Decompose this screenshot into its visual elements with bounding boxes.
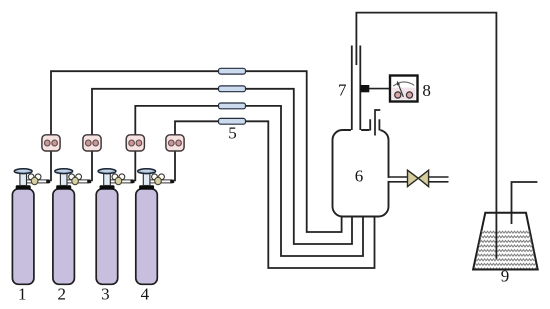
svg-text:1: 1 (18, 285, 27, 304)
svg-text:6: 6 (355, 167, 364, 186)
svg-text:3: 3 (101, 285, 110, 304)
svg-text:8: 8 (422, 81, 431, 100)
svg-text:2: 2 (58, 285, 67, 304)
svg-text:7: 7 (338, 81, 347, 100)
svg-text:9: 9 (501, 267, 510, 286)
svg-text:5: 5 (228, 124, 237, 143)
svg-text:4: 4 (141, 285, 150, 304)
